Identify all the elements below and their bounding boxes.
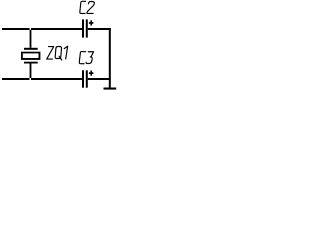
wire top rail right segment (C2 to corner) <box>88 28 111 30</box>
wire crystal lower lead <box>30 64 32 79</box>
capacitor C3 polarity plus sign <box>89 71 94 76</box>
crystal ZQ1 top plate <box>24 48 38 50</box>
wire crystal upper lead <box>30 30 32 48</box>
crystal ZQ1 body rectangle <box>21 52 40 60</box>
capacitor C2 polarity plus sign <box>89 20 94 25</box>
capacitor C3 left plate <box>82 70 84 87</box>
crystal ZQ1 bottom plate <box>24 62 38 64</box>
node junction of top rail and crystal branch <box>30 29 32 31</box>
wire right vertical rail <box>109 28 111 88</box>
ground bar <box>104 88 117 90</box>
label C2 <box>80 1 95 13</box>
label ZQ1 <box>47 46 68 60</box>
wire top rail middle segment (junction to C2 left plate) <box>31 28 82 30</box>
capacitor C3 right plate <box>86 70 88 87</box>
wire bottom rail right segment (C3 to right rail) <box>88 78 109 80</box>
capacitor C2 left plate <box>82 19 84 37</box>
wire bottom rail middle segment (junction to C3 left plate) <box>31 78 82 80</box>
label C3 <box>79 52 93 64</box>
wire top rail left segment <box>2 28 30 30</box>
capacitor C2 right plate <box>86 19 88 37</box>
wire bottom rail left segment <box>2 78 30 80</box>
